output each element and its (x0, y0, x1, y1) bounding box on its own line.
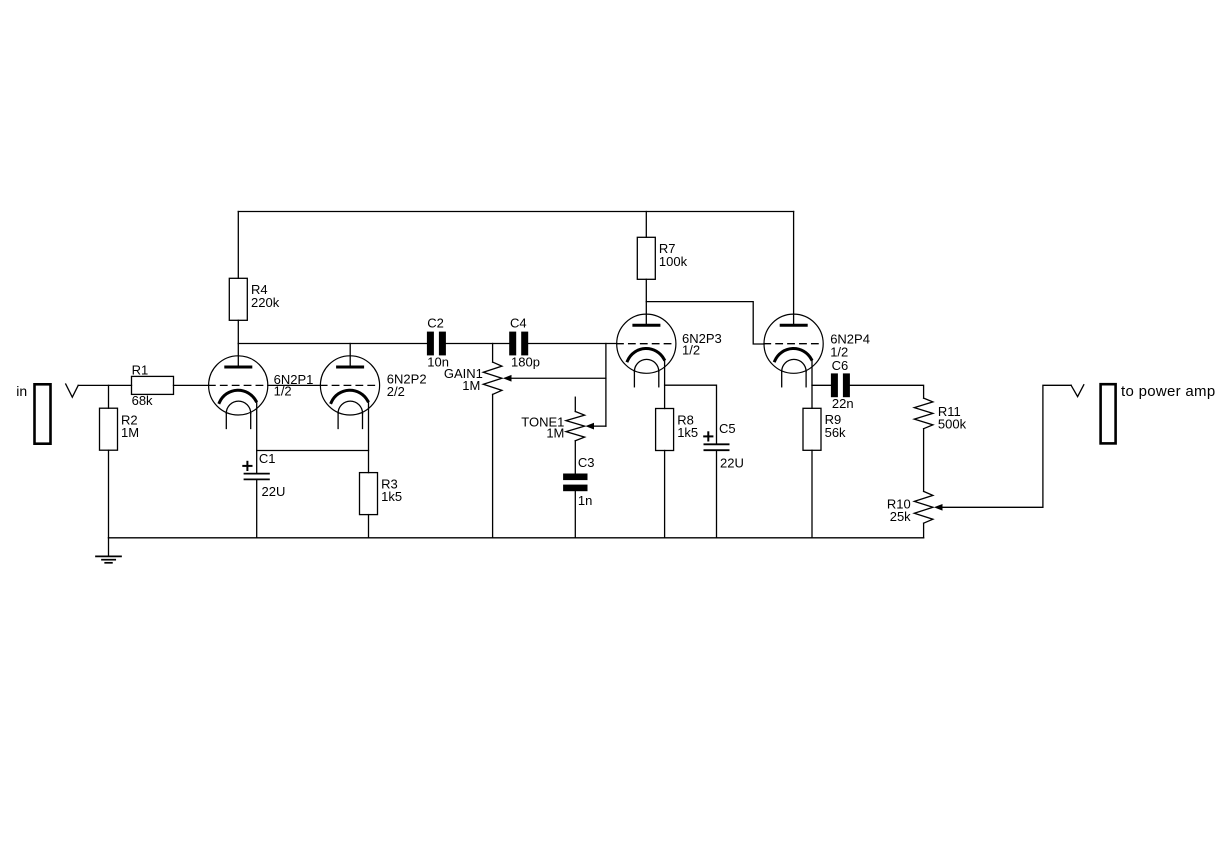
svg-text:220k: 220k (251, 295, 280, 310)
wire R7 to V3 plate (645, 279, 647, 325)
svg-text:C5: C5 (719, 421, 736, 436)
svg-text:22n: 22n (832, 396, 854, 411)
wire top bus to R4 (237, 212, 239, 279)
wire V1 cathode lead (256, 401, 258, 451)
potentiometer TONE1 (566, 397, 585, 473)
wire C1 to ground bus (256, 479, 258, 537)
potentiometer GAIN1 (483, 344, 502, 538)
wire cathode to C5 (665, 385, 717, 444)
wire R10 wiper to output (942, 385, 1072, 507)
wire V4 cathode to R9 (811, 359, 813, 408)
svg-text:C6: C6 (832, 358, 849, 373)
svg-text:180p: 180p (511, 354, 540, 369)
wire R11 to R10 (923, 429, 925, 492)
svg-text:56k: 56k (825, 425, 846, 440)
svg-text:to power amp: to power amp (1121, 383, 1215, 400)
wire C3 to ground bus (574, 491, 576, 538)
wire input to R1 (78, 384, 131, 386)
svg-text:C2: C2 (427, 316, 444, 331)
svg-text:1/2: 1/2 (682, 343, 700, 358)
svg-text:68k: 68k (132, 393, 153, 408)
resistor R2 (100, 408, 118, 450)
wire V2 cathode lead (368, 401, 370, 473)
arrow GAIN1 wiper (503, 375, 512, 382)
wire C4 to V3 grid (528, 343, 617, 345)
jack plug symbol output (1071, 385, 1084, 397)
arrow TONE1 wiper (585, 423, 594, 430)
resistor R7 (637, 237, 655, 279)
jack plug symbol input (66, 384, 79, 397)
wire GAIN1 wiper (511, 377, 606, 379)
wire grid tap vertical (605, 344, 607, 427)
svg-text:1k5: 1k5 (677, 425, 698, 440)
capacitor C3 (563, 474, 587, 492)
triode 6N2P1 (209, 356, 268, 429)
wire R9 to ground bus (811, 450, 813, 538)
wire R8 to ground bus (664, 451, 666, 538)
svg-text:1M: 1M (121, 425, 139, 440)
svg-text:C1: C1 (259, 451, 276, 466)
wire plate node to V4 grid elbow (646, 302, 764, 344)
svg-text:R1: R1 (132, 363, 149, 378)
wire cathode to C6 (812, 384, 831, 386)
capacitor C6 (831, 373, 850, 397)
resistor R9 (803, 408, 821, 450)
svg-text:22U: 22U (262, 484, 286, 499)
wire cathode link to R3 (257, 450, 369, 452)
ground symbol (96, 538, 121, 563)
svg-text:C3: C3 (578, 455, 595, 470)
resistor R8 (656, 409, 674, 451)
wire C6 to R11 (850, 385, 924, 398)
svg-text:1n: 1n (578, 493, 592, 508)
wire top bus to R7 (645, 212, 647, 238)
wire top bus to V4 plate (793, 212, 795, 326)
svg-text:in: in (16, 383, 27, 399)
triode 6N2P3 (617, 314, 676, 387)
wire C5 to ground bus (716, 450, 718, 538)
wire C1 top lead (256, 451, 258, 474)
arrow R10 wiper (934, 504, 943, 511)
wire TONE1 wiper (594, 425, 606, 427)
svg-text:1M: 1M (546, 426, 564, 441)
capacitor C1 (245, 474, 269, 480)
plus sign C5 (704, 432, 712, 440)
wire V3 cathode to R8 (664, 359, 666, 408)
ground bus wire (109, 537, 924, 539)
wire top supply bus (238, 211, 793, 213)
wire R2 to ground bus (108, 450, 110, 538)
svg-text:2/2: 2/2 (387, 384, 405, 399)
wire V1 plate lead (237, 344, 239, 368)
wire R1 to V1 grid (174, 384, 209, 386)
plus sign C1 (243, 462, 251, 470)
svg-text:25k: 25k (890, 509, 911, 524)
resistor R11 (914, 398, 933, 429)
resistor R4 (229, 278, 247, 320)
capacitor C5 (704, 444, 728, 450)
wire R4 to plate node (237, 320, 239, 343)
wire C2 to C4 (446, 343, 509, 345)
capacitor C4 (509, 332, 528, 356)
wire plate node to C2 (238, 343, 427, 345)
wire R10 to ground bus (923, 523, 925, 538)
connector J2 output (1101, 384, 1116, 443)
svg-text:22U: 22U (720, 456, 744, 471)
resistor R1 (132, 376, 174, 394)
svg-text:1M: 1M (462, 378, 480, 393)
wire node A down to R2 (108, 385, 110, 408)
wire V2 plate lead (349, 344, 351, 368)
resistor R3 (360, 473, 378, 515)
connector J1 input (35, 384, 51, 443)
svg-text:500k: 500k (938, 417, 967, 432)
wire V1 grid link to V2 (268, 384, 321, 386)
wire R3 to ground bus (368, 515, 370, 538)
triode 6N2P4 (764, 314, 823, 387)
triode 6N2P2 (320, 356, 379, 429)
svg-text:1k5: 1k5 (381, 489, 402, 504)
svg-text:C4: C4 (510, 316, 527, 331)
svg-text:100k: 100k (659, 254, 688, 269)
potentiometer R10 (914, 491, 933, 523)
capacitor C2 (427, 332, 446, 356)
